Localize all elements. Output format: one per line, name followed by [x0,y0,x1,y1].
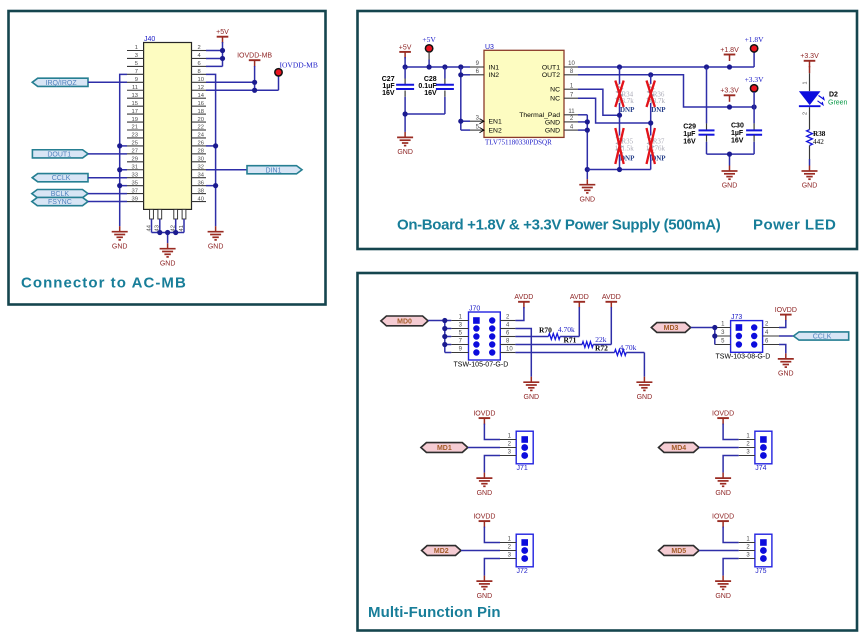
J72 pin 3 [500,553,516,559]
wire MD3 bus to odd pins [691,328,715,345]
J40 pin 19 [127,117,144,123]
J40 pin 10 [192,77,207,83]
svg-text:GND: GND [545,119,560,126]
svg-text:MD3: MD3 [664,325,679,332]
svg-text:40: 40 [198,196,204,202]
svg-text:IOVDD: IOVDD [473,514,495,521]
J70 pin 2 [500,315,515,321]
junction dots IOVDD-MB [252,80,257,93]
svg-text:DOUT1: DOUT1 [47,151,71,158]
wire pin2 to IOVDD [779,320,786,328]
svg-text:2: 2 [802,112,808,115]
capacitor C28 [418,67,453,114]
J70 pin 8 [500,339,515,345]
wire MD1 to pin2 [468,447,500,449]
U3 pin 11 Thermal_Pad [519,109,578,119]
U3 pin 7 NC [550,92,578,102]
svg-text:DIN1: DIN1 [266,167,282,174]
capacitor C30 [731,107,762,154]
J75 pin 2 [739,545,755,551]
resistor R72 [515,343,644,355]
svg-text:EN2: EN2 [489,128,502,135]
power port IOVDD (J72) [473,514,495,528]
svg-text:R38: R38 [813,130,826,138]
wire IRQ/IRQZ to pin 9 [88,81,127,83]
svg-text:25: 25 [132,141,138,147]
svg-text:20: 20 [198,117,204,123]
svg-text:Connector to AC-MB: Connector to AC-MB [21,275,187,292]
sheet box: power supply [358,11,858,249]
svg-text:J75: J75 [755,568,766,575]
svg-text:Green: Green [828,100,848,107]
svg-text:37: 37 [132,188,138,194]
power port AVDD (1) [514,294,533,308]
J40 pin 28 [192,149,207,155]
port MD4 [659,443,700,453]
wire pin2 to AVDD [515,307,524,321]
svg-text:14: 14 [198,93,205,99]
svg-text:R72: R72 [595,343,608,352]
port MD0 [381,316,428,326]
J72 pin 1 [500,537,516,543]
power port +1.8V [720,47,739,61]
power port +3.3V (LED) [800,53,819,67]
svg-text:8: 8 [198,69,201,75]
svg-text:AVDD: AVDD [602,294,621,301]
svg-text:30: 30 [198,157,204,163]
svg-text:24: 24 [198,133,205,139]
J40 pin 17 [127,109,144,115]
svg-text:1µF: 1µF [683,131,696,138]
junction dots +5V net [220,48,225,61]
svg-text:16V: 16V [382,90,395,97]
power port +5V (supply input) [399,44,412,58]
net label +3.3V (red dot) [745,75,765,92]
svg-text:10: 10 [506,347,513,353]
svg-text:22: 22 [198,125,204,131]
svg-text:J70: J70 [469,305,480,312]
svg-text:EN1: EN1 [489,119,502,126]
J40 pin 15 [127,101,144,107]
J40 pin 4 [192,53,207,59]
svg-text:28: 28 [198,149,204,155]
sheet box: Multi-Function Pin [358,273,858,631]
wire C27/C28 bottoms to GND [405,114,445,132]
svg-text:21: 21 [132,125,138,131]
svg-text:4.70k: 4.70k [620,343,637,352]
svg-text:+5V: +5V [399,44,412,51]
wire pin6 to GND [779,345,786,354]
svg-text:Thermal_Pad: Thermal_Pad [519,112,560,119]
U3 pin 10 OUT1 [542,61,578,71]
svg-text:18: 18 [198,109,204,115]
wire NC pin1 to R34/R35 midpoint [578,89,620,115]
J40 pin 33 [127,172,144,178]
wire pin 32 to DIN1 [206,169,247,171]
J70 pin 4 [500,323,515,329]
svg-text:17: 17 [132,109,138,115]
svg-text:GND: GND [397,149,413,156]
net label IOVDD-MB (red dot) [275,61,318,77]
wire: J40 bottom pins to GND [152,219,185,243]
junction dots +5V rail [403,64,464,69]
svg-text:11: 11 [132,85,138,91]
svg-text:39: 39 [132,196,138,202]
power port +3.3V [720,88,739,102]
ground (left bus) [112,226,128,250]
svg-text:GND: GND [477,490,493,497]
ground (C27/C28) [397,132,413,156]
J40 pin 35 [127,180,144,186]
svg-text:D2: D2 [829,91,838,98]
svg-text:31: 31 [132,164,138,170]
J40 pin 22 [192,125,207,131]
J70 pin 6 [500,331,515,337]
U3 pin 2 GND [545,116,578,126]
J73 pin 5 [715,339,731,345]
svg-text:IN2: IN2 [489,72,500,79]
J40 pin 32 [192,164,207,170]
svg-text:NC: NC [550,87,560,94]
svg-text:DNP: DNP [620,106,635,114]
J40 pin 5 [127,61,144,67]
svg-text:2: 2 [198,45,201,51]
ground (right bus) [208,226,224,250]
ground (C29/C30) [722,166,738,190]
junction dots EN bus [458,72,463,124]
junction dots +1.8V rail [617,64,732,69]
J73 pin 6 [763,339,779,345]
J40 pin 25 [127,141,144,147]
port MD5 [659,546,700,556]
svg-text:AVDD: AVDD [570,294,589,301]
J70 pin 7 [451,339,468,345]
J40 pin 8 [192,69,207,75]
wire R72 to GND [643,353,645,377]
svg-text:IRQ/IRQZ: IRQ/IRQZ [46,80,78,87]
J40 pin 11 [127,85,144,91]
svg-text:GND: GND [637,394,653,401]
J40 pin 1 [127,45,144,51]
wire +5V input rail [405,57,470,67]
U3 pin 9 IN1 [470,61,499,71]
wire pin3 to GND [484,559,500,576]
J40 pin 20 [192,117,207,123]
svg-text:GND: GND [160,260,176,267]
svg-text:GND: GND [802,183,818,190]
J73 pin 4 [763,330,779,336]
J40 pin 12 [192,85,207,91]
svg-text:35: 35 [132,180,138,186]
svg-text:C29: C29 [683,124,696,131]
junction dots right bus [213,143,218,188]
svg-text:16V: 16V [424,90,437,97]
svg-text:11: 11 [568,109,575,115]
J40 pin 23 [127,133,144,139]
ground (R72) [636,377,652,401]
ground (J75) [715,576,731,600]
power port IOVDD (J75) [712,514,734,528]
J40 pin 27 [127,149,144,155]
svg-text:J72: J72 [517,568,528,575]
svg-text:TLV751180330PDSQR: TLV751180330PDSQR [485,138,552,146]
J40 pin 31 [127,164,144,170]
capacitor C27 [382,67,414,114]
ground (J71) [476,473,492,497]
svg-text:13: 13 [132,93,138,99]
svg-text:GND: GND [778,371,794,378]
power port IOVDD (J74) [712,411,734,425]
U3 pin 3 EN1 [470,115,502,125]
svg-text:IOVDD-MB: IOVDD-MB [237,53,272,60]
wire NC pin7 to R36/R37 midpoint [578,98,651,123]
J40 pin 13 [127,93,144,99]
svg-text:GND: GND [580,196,596,203]
J70 pin 5 [451,331,468,337]
J71 pin 3 [500,450,516,456]
svg-text:6: 6 [198,61,201,67]
svg-text:GND: GND [112,243,128,250]
J40 pin 2 [192,45,207,51]
junction dots gnd bus [585,119,590,172]
svg-text:38: 38 [198,188,204,194]
svg-text:GND: GND [477,593,493,600]
port DOUT1 [32,150,88,159]
J74 pin 1 [739,434,755,440]
svg-text:1: 1 [135,45,138,51]
svg-text:Multi-Function Pin: Multi-Function Pin [368,604,501,621]
svg-text:Power LED: Power LED [753,217,836,234]
sheet box: Connector to AC-MB [9,11,326,305]
svg-text:GND: GND [715,593,731,600]
junction dots MD3 bus [712,325,717,339]
capacitor C29 [683,67,714,154]
svg-text:IOVDD: IOVDD [775,307,797,314]
J40 pin 37 [127,188,144,194]
J40 pin 40 [192,196,207,202]
J70 pin 9 [451,347,468,353]
svg-text:+3.3V: +3.3V [800,53,819,60]
J40 pin 44 [146,209,153,231]
header J75 [755,534,772,575]
U3 pin 1 NC [550,83,578,93]
svg-text:1µF: 1µF [731,130,744,137]
resistor R36 (DNP) [646,75,667,123]
power port AVDD (3) [602,294,621,308]
svg-text:IOVDD: IOVDD [712,411,734,418]
wire: IOVDD-MB to pins 10,12 [206,66,279,90]
svg-text:DNP: DNP [651,106,666,114]
svg-text:C30: C30 [731,123,744,130]
wire C29/C30 gnd rail [707,154,755,165]
J40 pin 36 [192,180,207,186]
svg-text:GND: GND [208,243,224,250]
svg-text:26: 26 [198,141,204,147]
svg-text:+1.8V: +1.8V [745,35,765,44]
net label +1.8V (red dot) [745,35,765,52]
svg-text:IOVDD-MB: IOVDD-MB [280,61,318,70]
port CCLK (output) [794,332,849,341]
wire +3.3V dot stub [753,92,755,107]
ground (U3) [579,179,595,203]
svg-text:7: 7 [135,69,138,75]
svg-text:+3.3V: +3.3V [745,75,765,84]
header J70 [454,305,509,368]
net label +5V (red dot) [422,35,436,52]
wire MD0 bus to odd pins [428,321,451,353]
svg-text:36: 36 [198,180,204,186]
power port IOVDD (J71) [473,411,495,425]
junction dot [727,152,732,157]
U3 pin 6 IN2 [470,69,499,79]
svg-text:TSW-103-08-G-D: TSW-103-08-G-D [716,354,771,361]
svg-text:OUT1: OUT1 [542,64,560,71]
J40 pin 42 [171,209,178,231]
wire DOUT1 to pin 27 [88,153,127,155]
J40 pin 6 [192,61,207,67]
svg-text:MD2: MD2 [434,548,449,555]
svg-text:27: 27 [132,149,138,155]
wire FSYNC to pin 39 [88,201,127,203]
svg-text:+1.8V: +1.8V [720,47,739,54]
wire pin3 to GND [723,559,739,576]
wire pin4 to GND [515,329,531,377]
J40 pin 43 [155,209,162,231]
svg-text:12: 12 [198,85,204,91]
svg-text:CCLK: CCLK [52,175,71,182]
J72 pin 2 [500,545,516,551]
resistor R70 [515,325,579,340]
power port IOVDD-MB [237,53,272,67]
wire BCLK to pin 37 [88,193,127,195]
power port +5V (J40) [216,29,229,43]
wire DNP bottom rail [587,169,650,171]
ground (J70 pin4) [523,377,539,401]
svg-text:16: 16 [198,101,204,107]
wire EN1/EN2 bus [461,67,470,130]
svg-text:33: 33 [132,172,138,178]
wire MD5 to pin2 [699,550,739,552]
junction dots MD0 bus [442,318,447,347]
wire +3.3V rail (OUT2) [578,75,754,107]
J40 pin 39 [127,196,144,202]
J73 pin 3 [715,330,731,336]
J70 pin 10 [500,347,515,353]
port FSYNC [32,197,88,206]
svg-text:MD1: MD1 [437,445,452,452]
connector J40 [144,36,192,209]
J71 pin 2 [500,442,516,448]
resistor R37 (DNP) [646,123,667,170]
svg-text:10: 10 [568,61,575,67]
J70 pin 3 [451,323,468,329]
svg-text:J74: J74 [755,465,766,472]
wire R70 to AVDD [578,307,580,337]
svg-text:29: 29 [132,157,138,163]
wire MD4 to pin2 [699,447,739,449]
J73 pin 2 [763,322,779,328]
J71 pin 1 [500,434,516,440]
wire IOVDD to J72 pin1 [484,527,500,543]
wire IOVDD to J71 pin1 [484,424,500,440]
wire: left gnd bus (pins 7,25,31,35) [120,74,127,226]
svg-text:TSW-105-07-G-D: TSW-105-07-G-D [454,361,509,368]
svg-text:5: 5 [135,61,138,67]
U3 pin 4 GND [545,124,578,134]
wire R71 to AVDD [610,307,612,345]
wire IOVDD to J75 pin1 [723,527,739,543]
svg-text:442: 442 [813,138,824,146]
J40 pin 30 [192,157,207,163]
resistor R35 (DNP) [615,115,636,169]
J40 pin 3 [127,53,144,59]
svg-text:23: 23 [132,133,138,139]
svg-text:34: 34 [198,172,205,178]
wire pin4 to CCLK [779,335,794,337]
J75 pin 3 [739,553,755,559]
J40 pin 9 [127,77,144,83]
svg-text:GND: GND [715,490,731,497]
wire IOVDD to J74 pin1 [723,424,739,440]
svg-text:IN1: IN1 [489,64,500,71]
svg-text:+5V: +5V [422,35,436,44]
wire: right gnd bus (pins 8,26,36) [206,74,216,226]
regulator U3 [484,44,564,146]
port MD3 [651,323,690,333]
power port AVDD (2) [570,294,589,308]
svg-text:+5V: +5V [216,29,229,36]
port BCLK [32,190,88,199]
J40 pin 41 [179,209,186,231]
svg-text:On-Board +1.8V & +3.3V Power S: On-Board +1.8V & +3.3V Power Supply (500… [397,217,721,234]
svg-text:R70: R70 [539,325,552,334]
svg-text:MD0: MD0 [397,318,412,325]
J40 pin 24 [192,133,207,139]
svg-text:10: 10 [198,77,204,83]
power port IOVDD (J73) [775,307,797,321]
J74 pin 3 [739,450,755,456]
wire CCLK to pin 33 [88,177,127,179]
svg-text:4.70k: 4.70k [558,325,575,334]
port DIN1 [247,166,302,175]
J74 pin 2 [739,442,755,448]
J70 pin 1 [451,315,468,321]
svg-text:IOVDD: IOVDD [473,411,495,418]
J40 pin 34 [192,172,207,178]
port CCLK [32,174,88,183]
wire pin3 to GND [484,456,500,473]
svg-text:OUT2: OUT2 [542,72,560,79]
wire U3 gnd bus (pins 11,2,4) [578,115,587,179]
port MD2 [422,546,461,556]
wire pin3 to GND [723,456,739,473]
svg-text:1: 1 [802,81,808,84]
J40 pin 29 [127,157,144,163]
svg-text:R71: R71 [564,335,577,344]
U3 pin 5 EN2 [470,124,502,134]
resistor R71 [515,335,611,347]
J40 pin 14 [192,93,207,99]
svg-text:GND: GND [722,183,738,190]
wire: +5V to pins 2,4,6 [206,42,223,66]
port IRQ/IRQZ [32,78,88,87]
J40 pin 7 [127,69,144,75]
J40 pin 21 [127,125,144,131]
wire MD2 to pin2 [461,550,500,552]
wire +1.8V rail (OUT1) [578,52,754,67]
ground (J73) [778,353,794,377]
J40 pin 38 [192,188,207,194]
